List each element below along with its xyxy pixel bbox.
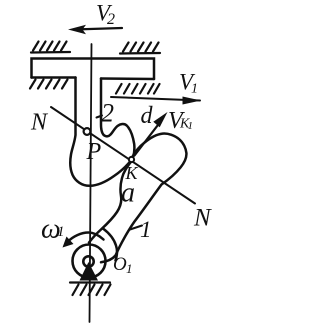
svg-text:O: O [113, 254, 127, 275]
svg-text:d: d [141, 103, 154, 129]
svg-text:N: N [193, 205, 212, 232]
svg-text:1: 1 [57, 224, 65, 240]
svg-text:P: P [86, 139, 102, 165]
svg-text:1: 1 [191, 82, 198, 97]
svg-text:N: N [30, 110, 49, 136]
svg-text:1: 1 [188, 120, 194, 132]
svg-text:2: 2 [107, 11, 115, 28]
svg-text:2: 2 [101, 99, 114, 128]
svg-text:a: a [121, 178, 135, 209]
svg-text:1: 1 [140, 217, 152, 242]
svg-text:1: 1 [126, 261, 133, 276]
